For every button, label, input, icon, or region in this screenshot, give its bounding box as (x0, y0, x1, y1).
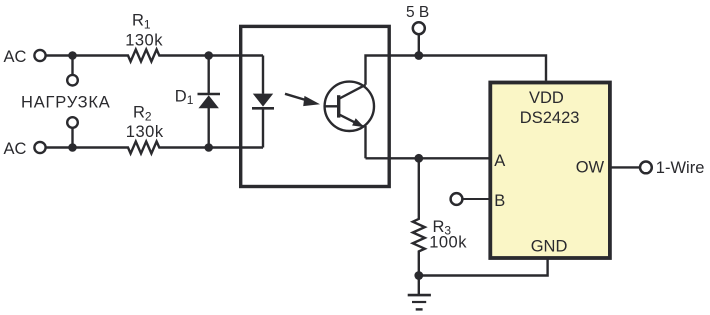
wire pin B stub (462, 198, 489, 200)
wire top load stub (71, 56, 73, 75)
wire emitter rail to pin A (366, 157, 490, 159)
svg-text:AC: AC (4, 48, 27, 66)
svg-text:AC: AC (4, 140, 27, 158)
terminal 5V (413, 22, 425, 34)
wire collector rail to 5V node and VDD corner (366, 56, 547, 85)
wire top AC line with resistor R1 zigzag (46, 50, 263, 62)
svg-text:DS2423: DS2423 (520, 109, 580, 127)
phototransistor Q1 (325, 82, 374, 131)
svg-text:130k: 130k (126, 123, 164, 141)
wire GND pin to ground node (419, 258, 548, 276)
node D1 top junction (204, 51, 213, 60)
LED inside optocoupler (252, 56, 274, 148)
wire 5V stub (418, 34, 420, 55)
svg-text:B: B (494, 192, 505, 210)
wire pin OW stub (611, 166, 640, 168)
svg-text:1-Wire: 1-Wire (656, 159, 705, 177)
diode D1 (198, 56, 221, 148)
svg-text:100k: 100k (429, 234, 467, 252)
terminal load top (67, 75, 78, 86)
ground (408, 276, 431, 310)
svg-text:НАГРУЗКА: НАГРУЗКА (21, 94, 111, 112)
wire bottom AC line with resistor R2 zigzag (46, 142, 263, 154)
wire bottom load stub (71, 128, 73, 148)
terminal 1-Wire (640, 162, 652, 174)
node ground junction (414, 271, 423, 280)
resistor R3 (413, 158, 425, 275)
arrow LED to phototransistor (285, 94, 320, 106)
terminal AC top (34, 50, 45, 61)
terminal B (451, 193, 463, 205)
svg-text:A: A (494, 152, 505, 170)
terminal AC bottom (34, 142, 45, 153)
node A junction (414, 154, 423, 163)
node D1 bottom junction (204, 143, 213, 152)
svg-text:130k: 130k (125, 31, 163, 49)
svg-text:5 В: 5 В (406, 4, 429, 21)
IC U2 DS2423 body (490, 83, 610, 259)
wire emitter rail below transistor (364, 126, 366, 158)
svg-text:GND: GND (531, 238, 568, 256)
optocoupler box U1 (241, 26, 390, 186)
terminal load bottom (67, 117, 78, 128)
svg-text:OW: OW (576, 159, 605, 177)
svg-text:VDD: VDD (529, 89, 564, 107)
node top load junction (68, 51, 77, 60)
node bottom load junction (68, 143, 77, 152)
node 5V junction (414, 51, 423, 60)
